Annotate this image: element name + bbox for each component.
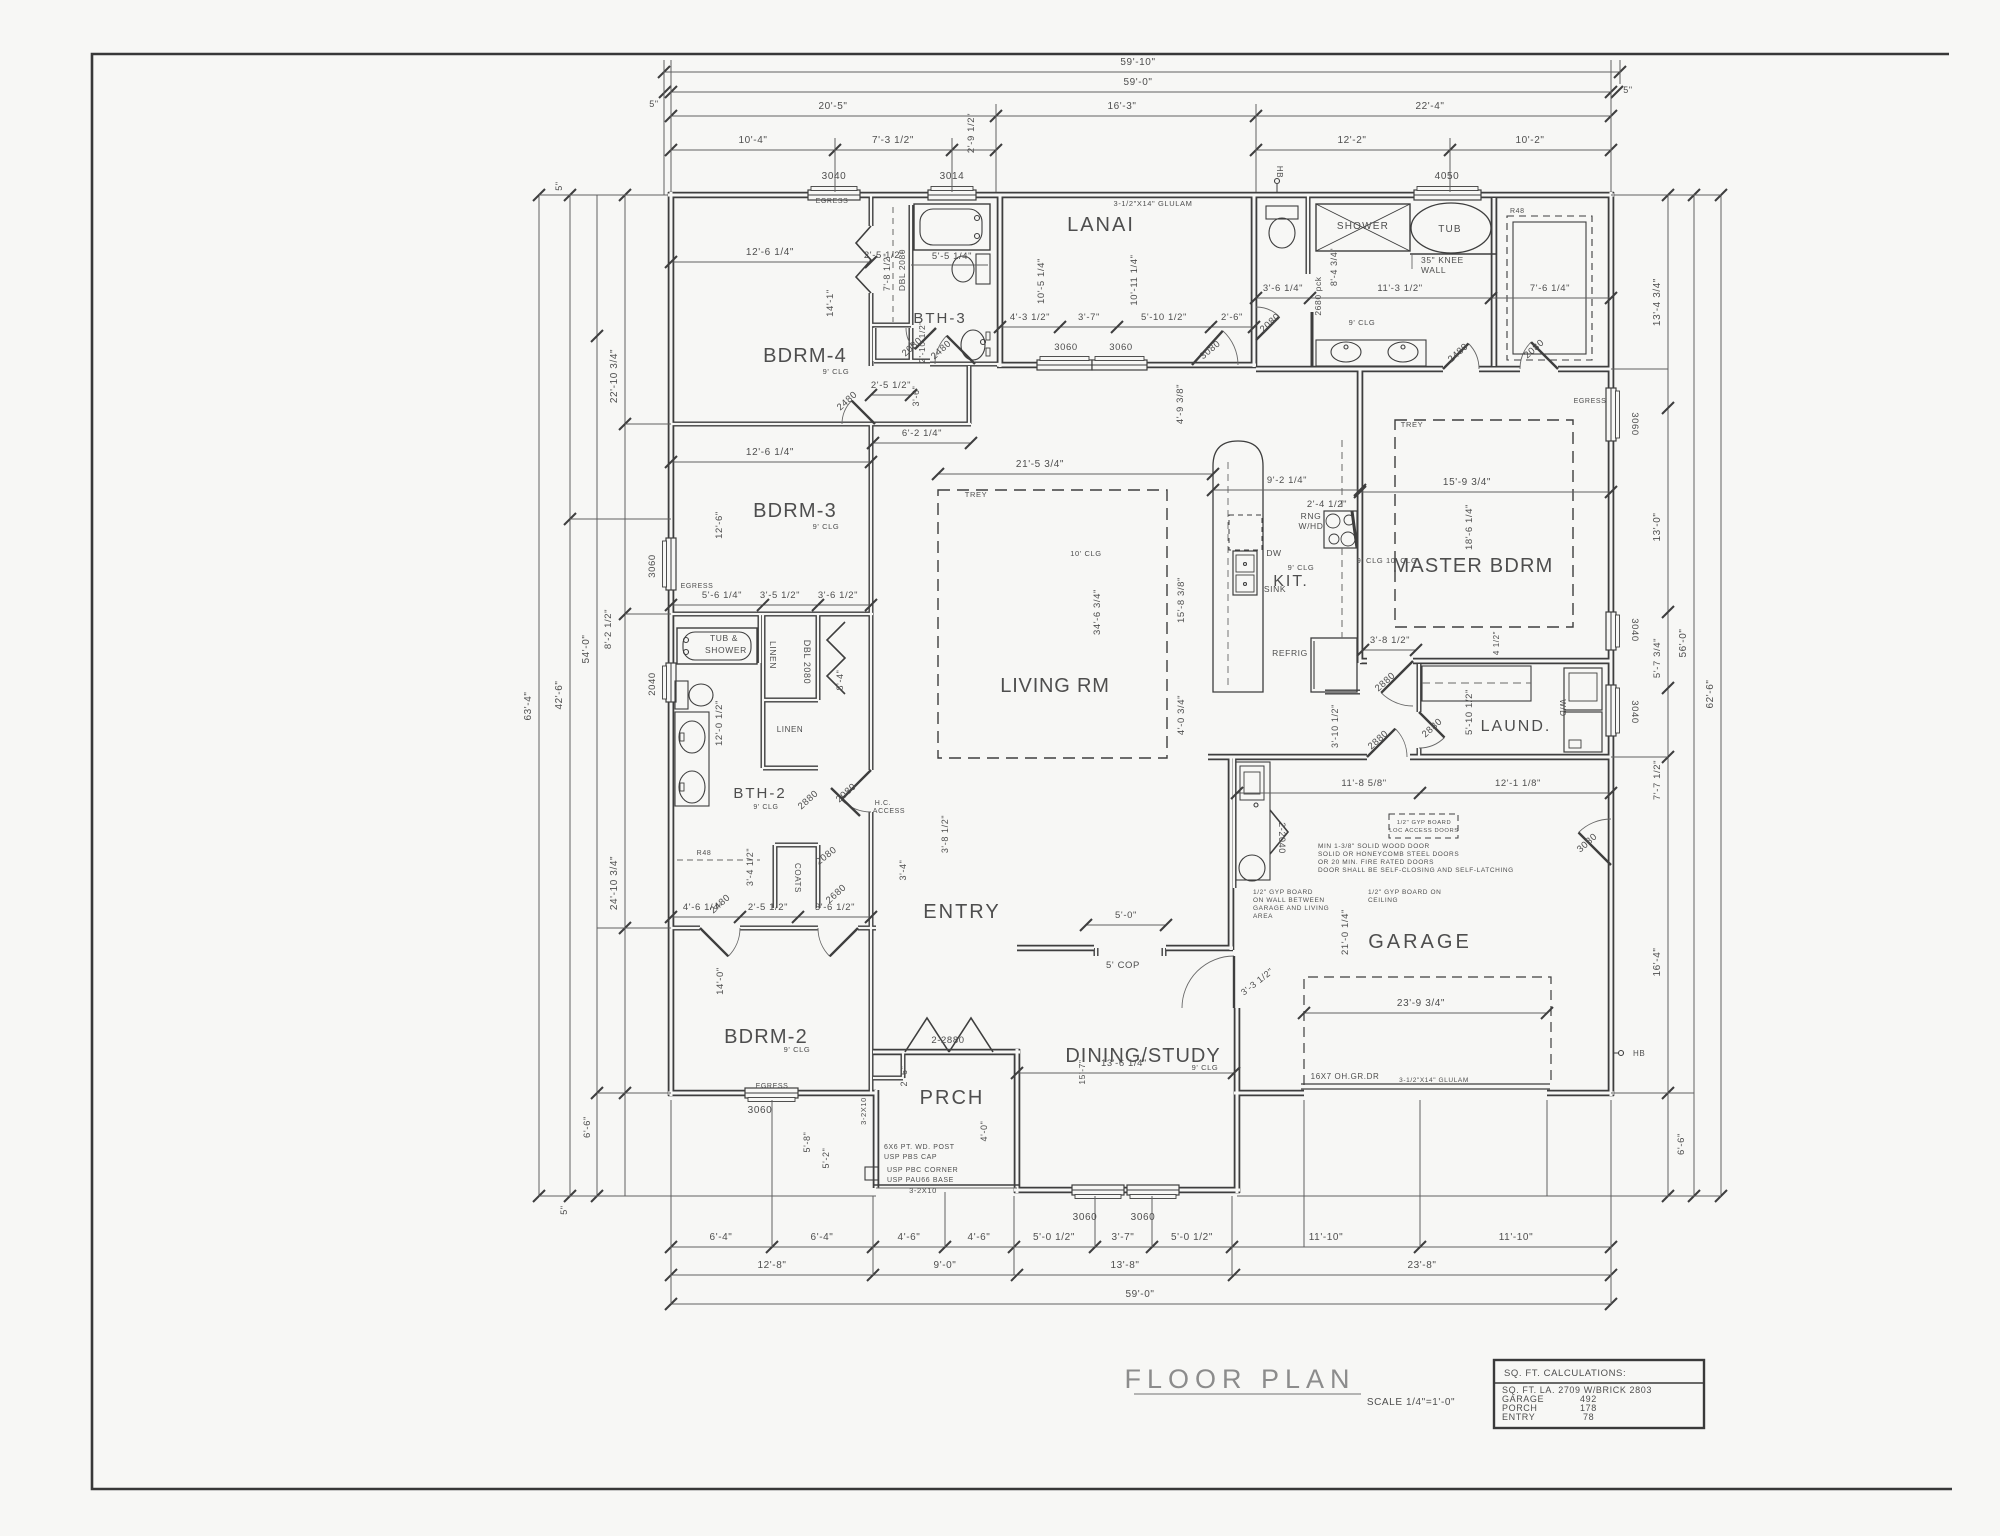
svg-text:USP PBC CORNER: USP PBC CORNER — [887, 1167, 958, 1174]
right window labels — [1574, 398, 1640, 724]
svg-text:COATS: COATS — [793, 863, 802, 893]
svg-text:5'-10 1/2": 5'-10 1/2" — [1141, 312, 1187, 323]
svg-text:5'-8": 5'-8" — [802, 1132, 812, 1153]
svg-text:LIVING RM: LIVING RM — [1000, 675, 1109, 697]
svg-text:3060: 3060 — [1629, 412, 1640, 436]
garage door opening 16x7 — [1301, 1084, 1550, 1089]
svg-text:9' CLG: 9' CLG — [784, 1045, 811, 1054]
svg-text:HB: HB — [1275, 166, 1284, 178]
room label lanai — [1067, 214, 1135, 236]
svg-text:12'-8": 12'-8" — [757, 1260, 786, 1271]
note glulam lanai — [1114, 199, 1193, 208]
svg-text:3-1/2"X14" GLULAM: 3-1/2"X14" GLULAM — [1114, 199, 1193, 208]
porch post — [865, 1167, 878, 1180]
svg-text:5'-0 1/2": 5'-0 1/2" — [1033, 1232, 1075, 1243]
svg-text:4'-0 3/4": 4'-0 3/4" — [1176, 695, 1187, 735]
dim bdrm3 12-6 — [665, 447, 877, 539]
svg-text:3'-8 1/2": 3'-8 1/2" — [1370, 635, 1410, 646]
bottom dimension row2 — [665, 1260, 1617, 1281]
svg-text:ACCESS: ACCESS — [873, 808, 905, 815]
svg-text:BDRM-3: BDRM-3 — [753, 500, 837, 522]
svg-text:34'-6 3/4": 34'-6 3/4" — [1092, 589, 1103, 635]
master closet shelves — [1507, 208, 1592, 360]
svg-text:MIN 1-3/8" SOLID WOOD DOOR: MIN 1-3/8" SOLID WOOD DOOR — [1318, 843, 1430, 850]
left window labels — [647, 554, 713, 696]
door 2080 hall to bth-2 — [834, 770, 871, 812]
insulation note R48 bth2 — [677, 850, 760, 860]
svg-text:11'-10": 11'-10" — [1309, 1232, 1344, 1243]
dim bth2 bottom row — [665, 902, 877, 923]
door 2480 bth-3 hall — [929, 336, 975, 364]
svg-text:USP PAU66 BASE: USP PAU66 BASE — [887, 1177, 954, 1184]
dishwasher — [1229, 515, 1282, 558]
dim garage verticals — [1239, 909, 1351, 997]
svg-text:9' CLG: 9' CLG — [753, 804, 778, 811]
svg-text:10' CLG: 10' CLG — [1070, 549, 1101, 558]
svg-text:2'-10 1/2": 2'-10 1/2" — [917, 321, 927, 363]
svg-text:6'-4": 6'-4" — [811, 1232, 834, 1243]
dim master 15-9 — [1354, 477, 1617, 550]
window 3060 laundry — [1606, 612, 1620, 650]
svg-text:13'-4 3/4": 13'-4 3/4" — [1652, 278, 1663, 326]
garage utility sink — [1236, 762, 1270, 881]
svg-text:14'-0": 14'-0" — [715, 967, 726, 995]
svg-text:BTH-3: BTH-3 — [913, 310, 966, 327]
svg-text:LOC ACCESS DOORS: LOC ACCESS DOORS — [1389, 828, 1459, 834]
svg-text:7'-6 1/4": 7'-6 1/4" — [1530, 283, 1570, 294]
svg-text:OR 20 MIN. FIRE RATED DOORS: OR 20 MIN. FIRE RATED DOORS — [1318, 859, 1434, 866]
master trey ceiling — [1357, 420, 1573, 627]
svg-text:LANAI: LANAI — [1067, 214, 1135, 236]
svg-text:DW: DW — [1266, 548, 1281, 558]
note porch post — [884, 1144, 958, 1195]
svg-text:3'-4": 3'-4" — [898, 860, 908, 881]
svg-text:12'-6": 12'-6" — [714, 511, 725, 539]
hose bibs — [1275, 166, 1646, 1058]
sink bth-3 — [961, 330, 990, 360]
svg-text:21'-5 3/4": 21'-5 3/4" — [1016, 459, 1064, 470]
svg-text:59'-0": 59'-0" — [1125, 1289, 1154, 1300]
svg-text:3040: 3040 — [1629, 618, 1640, 642]
svg-text:59'-0": 59'-0" — [1123, 77, 1152, 88]
door 2080 coats — [814, 844, 839, 867]
svg-text:SCALE 1/4"=1'-0": SCALE 1/4"=1'-0" — [1367, 1397, 1455, 1408]
svg-text:R48: R48 — [1510, 208, 1525, 215]
room label dining study — [1065, 1045, 1220, 1072]
svg-text:35" KNEE: 35" KNEE — [1421, 255, 1464, 265]
dim kitchen verticals — [1092, 577, 1340, 748]
window 3060 master egress — [1606, 388, 1620, 441]
svg-text:10'-5 1/4": 10'-5 1/4" — [1036, 258, 1047, 304]
dim kitchen 9-2 — [1207, 475, 1366, 510]
window 4050 master bath — [1414, 187, 1481, 201]
svg-text:3060: 3060 — [1109, 342, 1133, 353]
bottom dimension row3 — [665, 1289, 1617, 1310]
svg-text:9' CLG: 9' CLG — [1349, 318, 1376, 327]
top dimension line row4 — [665, 113, 1617, 156]
room label master bdrm — [1393, 555, 1554, 577]
door 3080 lanai — [1192, 331, 1238, 365]
right dimension col 56-0 — [1678, 189, 1700, 1202]
svg-text:W/HD: W/HD — [1298, 521, 1323, 531]
room label living rm — [1000, 675, 1109, 697]
bifold 2-2040 garage closet — [1270, 810, 1288, 854]
svg-text:7'-3 1/2": 7'-3 1/2" — [872, 135, 914, 146]
dim bdrm4 verticals — [825, 249, 927, 407]
svg-text:11'-10": 11'-10" — [1499, 1232, 1534, 1243]
svg-text:5": 5" — [554, 181, 564, 190]
laundry counter — [1422, 666, 1531, 701]
svg-text:7'-7 1/2": 7'-7 1/2" — [1652, 760, 1663, 800]
svg-text:DBL 2080: DBL 2080 — [802, 640, 812, 685]
top extension lines — [664, 60, 1620, 195]
room label bth-3 — [913, 310, 966, 327]
room label entry — [923, 901, 1000, 923]
svg-text:9' CLG: 9' CLG — [1192, 1063, 1219, 1072]
svg-text:2'-6": 2'-6" — [899, 1066, 909, 1087]
svg-text:5'-0 1/2": 5'-0 1/2" — [1171, 1232, 1213, 1243]
note gyp ceiling — [1368, 889, 1441, 904]
svg-text:12'-6 1/4": 12'-6 1/4" — [746, 247, 794, 258]
pocket door 2680 master bath — [1312, 276, 1323, 366]
svg-text:12'-0 1/2": 12'-0 1/2" — [714, 700, 725, 746]
svg-text:20'-5": 20'-5" — [818, 101, 847, 112]
svg-text:3040: 3040 — [822, 171, 847, 182]
svg-text:SHOWER: SHOWER — [1337, 221, 1389, 232]
svg-text:3'-6 1/2": 3'-6 1/2" — [818, 590, 858, 601]
svg-text:12'-2": 12'-2" — [1337, 135, 1366, 146]
svg-text:6'-6": 6'-6" — [1676, 1133, 1687, 1155]
note garage door — [1311, 1072, 1469, 1084]
window 3060 bdrm-3 left wall — [663, 538, 677, 590]
svg-text:LAUND.: LAUND. — [1481, 718, 1552, 735]
door 2080 master closet — [1520, 337, 1558, 369]
bottom dimension row1 — [665, 1232, 1617, 1253]
svg-text:2'-5 1/2": 2'-5 1/2" — [748, 902, 788, 913]
kitchen island — [1213, 441, 1263, 692]
svg-text:EGRESS: EGRESS — [681, 583, 714, 590]
svg-text:8'-2 1/2": 8'-2 1/2" — [603, 609, 614, 649]
svg-text:FLOOR PLAN: FLOOR PLAN — [1124, 1364, 1355, 1394]
svg-text:22'-4": 22'-4" — [1415, 101, 1444, 112]
dim entry 5-0 — [1080, 910, 1172, 971]
svg-text:10'-2": 10'-2" — [1515, 135, 1544, 146]
dim bth2 row — [665, 590, 877, 611]
wall cores — [668, 192, 1614, 1193]
svg-text:5'-7 3/4": 5'-7 3/4" — [1652, 638, 1663, 678]
dim dining 13-6 — [1011, 1058, 1240, 1085]
porch slab edge — [873, 1185, 1019, 1188]
svg-text:TREY: TREY — [1401, 420, 1423, 429]
svg-text:SOLID OR HONEYCOMB STEEL DOORS: SOLID OR HONEYCOMB STEEL DOORS — [1318, 851, 1459, 858]
svg-text:9'-2 1/4": 9'-2 1/4" — [1267, 475, 1307, 486]
svg-text:3014: 3014 — [940, 171, 965, 182]
svg-text:16X7 OH.GR.DR: 16X7 OH.GR.DR — [1311, 1072, 1380, 1081]
svg-text:22'-10 3/4": 22'-10 3/4" — [609, 349, 620, 403]
svg-text:4'-3 1/2": 4'-3 1/2" — [1010, 312, 1050, 323]
svg-text:PRCH: PRCH — [920, 1087, 985, 1109]
upper cabinets dash kitchen — [1341, 440, 1343, 638]
dim master 3-8 — [1357, 631, 1501, 656]
bifold doors dbl 2080 bth-2 linen — [827, 622, 845, 694]
left dimension col segments — [603, 189, 631, 1196]
dim bth2 verticals — [714, 640, 845, 746]
svg-text:4'-6": 4'-6" — [898, 1232, 921, 1243]
svg-text:4'-6 1/4": 4'-6 1/4" — [683, 902, 723, 913]
right dimension col 62-6 — [1705, 189, 1727, 1202]
room label bdrm-3 — [753, 500, 839, 531]
svg-text:1/2" GYP BOARD ON: 1/2" GYP BOARD ON — [1368, 889, 1441, 896]
svg-text:59'-10": 59'-10" — [1120, 57, 1155, 68]
dim hall verticals — [733, 785, 950, 886]
door 3-3.5 entry-garage — [1182, 956, 1234, 1008]
tub bth-3 — [914, 204, 990, 250]
svg-text:2'-9 1/2": 2'-9 1/2" — [966, 113, 977, 153]
svg-text:11'-3 1/2": 11'-3 1/2" — [1377, 283, 1422, 294]
dim hall 6-2 — [867, 428, 977, 449]
svg-text:11'-8 5/8": 11'-8 5/8" — [1341, 778, 1386, 789]
svg-text:5": 5" — [1623, 85, 1632, 95]
window 3060 bdrm-2 egress — [745, 1088, 798, 1102]
dim closet 2-5 — [865, 380, 917, 401]
svg-text:TUB: TUB — [1438, 224, 1462, 235]
svg-text:5'-10 1/2": 5'-10 1/2" — [1464, 689, 1475, 735]
top dimension line 59-10 — [658, 57, 1626, 84]
room label garage — [1368, 931, 1472, 953]
svg-text:6'-4": 6'-4" — [710, 1232, 733, 1243]
svg-text:EGRESS: EGRESS — [756, 1083, 789, 1090]
svg-text:5'-0": 5'-0" — [1115, 910, 1137, 921]
svg-text:3060: 3060 — [1073, 1212, 1098, 1223]
svg-text:3'-6 1/2": 3'-6 1/2" — [815, 902, 855, 913]
svg-text:ENTRY: ENTRY — [923, 901, 1000, 923]
svg-text:BDRM-4: BDRM-4 — [763, 345, 847, 367]
svg-text:62'-6": 62'-6" — [1705, 679, 1716, 708]
door 2880 laundry — [1419, 712, 1445, 748]
svg-text:5'-5 1/4": 5'-5 1/4" — [932, 251, 972, 262]
svg-text:KIT.: KIT. — [1273, 573, 1309, 590]
door 3080 garage right — [1575, 819, 1611, 865]
toilet bth-2 — [675, 681, 713, 709]
left extension lines — [539, 195, 876, 1196]
door 2880 hc access — [796, 788, 860, 816]
svg-text:9'-0": 9'-0" — [934, 1260, 957, 1271]
dim bth3 5-5 — [864, 250, 988, 265]
room label bdrm-2 — [724, 1026, 810, 1054]
french doors 2-2880 entry — [905, 1018, 993, 1052]
svg-text:14'-1": 14'-1" — [825, 289, 836, 317]
svg-text:4050: 4050 — [1435, 171, 1460, 182]
svg-text:DOOR SHALL BE SELF-CLOSING AND: DOOR SHALL BE SELF-CLOSING AND SELF-LATC… — [1318, 867, 1514, 874]
svg-text:13'-0": 13'-0" — [1652, 512, 1663, 541]
dim living 21-5 — [932, 459, 1219, 480]
svg-text:12'-6 1/4": 12'-6 1/4" — [746, 447, 794, 458]
svg-text:10'-11 1/4": 10'-11 1/4" — [1129, 254, 1140, 305]
svg-text:RNG: RNG — [1301, 511, 1322, 521]
top dimension line row3 — [665, 101, 1617, 122]
svg-text:4'-9 3/8": 4'-9 3/8" — [1175, 384, 1186, 424]
note gyp wall — [1253, 889, 1329, 920]
living room trey ceiling — [938, 490, 1167, 758]
svg-text:TREY: TREY — [965, 490, 987, 499]
svg-text:8'-4": 8'-4" — [835, 670, 845, 691]
svg-text:1/2" GYP BOARD: 1/2" GYP BOARD — [1397, 820, 1452, 826]
svg-text:2'-5 1/2": 2'-5 1/2" — [871, 380, 911, 391]
tub and shower bth-2 — [677, 628, 757, 664]
svg-text:16'-4": 16'-4" — [1652, 947, 1663, 976]
svg-text:2-2040: 2-2040 — [1277, 822, 1287, 854]
left dimension col 63-4 — [523, 189, 545, 1202]
right dimension col inner — [1652, 189, 1687, 1202]
svg-text:3'-5 1/2": 3'-5 1/2" — [760, 590, 800, 601]
svg-text:78: 78 — [1583, 1412, 1594, 1422]
room label kit — [1273, 563, 1314, 590]
svg-text:R48: R48 — [697, 850, 712, 857]
door 2880 hall-garage — [1366, 728, 1407, 757]
refrigerator — [1272, 638, 1357, 692]
window 3014 bth-3 — [928, 187, 976, 201]
svg-text:3040: 3040 — [1629, 700, 1640, 724]
svg-text:REFRIG: REFRIG — [1272, 648, 1308, 658]
svg-text:24'-10 3/4": 24'-10 3/4" — [609, 856, 620, 910]
range — [1298, 511, 1357, 548]
svg-text:3'-7": 3'-7" — [1078, 312, 1100, 323]
vanity bth-2 — [675, 712, 709, 806]
svg-text:BTH-2: BTH-2 — [733, 785, 786, 802]
svg-text:21'-0 1/4": 21'-0 1/4" — [1340, 909, 1351, 955]
title floor plan — [1124, 1364, 1455, 1408]
svg-text:2040: 2040 — [647, 672, 658, 696]
svg-text:10'-4": 10'-4" — [738, 135, 767, 146]
dim master bath row — [1250, 248, 1617, 327]
svg-text:3'-8 1/2": 3'-8 1/2" — [940, 815, 950, 853]
window 2040 bth-2 left wall — [663, 663, 677, 702]
svg-text:3'-6 1/4": 3'-6 1/4" — [1263, 283, 1303, 294]
kitchen sink — [1233, 551, 1286, 595]
svg-text:5'-2": 5'-2" — [821, 1148, 831, 1169]
door 2480 master bath — [1443, 341, 1479, 369]
svg-text:2-2880: 2-2880 — [931, 1035, 964, 1046]
window 3040 laundry — [1606, 685, 1620, 736]
right extension lines — [1237, 195, 1721, 1196]
svg-text:6'-6": 6'-6" — [582, 1116, 593, 1138]
door 2880 master bdrm — [1373, 661, 1413, 706]
dim garage door 23-9 — [1298, 998, 1553, 1019]
dim garage row — [1231, 778, 1617, 799]
door 2080 bth-3 — [900, 328, 936, 359]
note fire door — [1318, 843, 1514, 874]
svg-text:3060: 3060 — [1054, 342, 1078, 353]
svg-text:2680 pck: 2680 pck — [1313, 276, 1323, 315]
svg-text:12'-1 1/8": 12'-1 1/8" — [1495, 778, 1541, 789]
dim laundry — [1464, 689, 1475, 735]
svg-text:5' COP: 5' COP — [1106, 960, 1140, 971]
svg-text:4'-0": 4'-0" — [979, 1121, 989, 1142]
window 3040 bdrm-4 — [808, 187, 860, 201]
svg-text:5'-6 1/4": 5'-6 1/4" — [702, 590, 742, 601]
master vanity — [1316, 340, 1426, 366]
svg-text:3060: 3060 — [748, 1105, 773, 1116]
door 2080 master bath hall — [1256, 307, 1283, 340]
svg-text:3-2X10: 3-2X10 — [859, 1097, 868, 1125]
svg-text:6'-2 1/4": 6'-2 1/4" — [902, 428, 942, 439]
svg-text:HB: HB — [1633, 1049, 1645, 1058]
svg-text:5": 5" — [559, 1205, 569, 1214]
svg-text:42'-6": 42'-6" — [554, 680, 565, 709]
svg-text:9' CLG: 9' CLG — [823, 367, 850, 376]
room label prch — [920, 1087, 985, 1109]
door 2480 bdrm-2 left — [700, 892, 740, 956]
dim bdrm4 12-6 — [665, 247, 877, 268]
svg-text:3-1/2"X14" GLULAM: 3-1/2"X14" GLULAM — [1399, 1077, 1469, 1084]
interior walls — [671, 195, 1419, 1093]
svg-text:GARAGE AND LIVING: GARAGE AND LIVING — [1253, 905, 1329, 912]
master toilet — [1266, 206, 1298, 248]
garage ceiling gyp dashed — [1304, 977, 1551, 1085]
svg-text:USP PBS CAP: USP PBS CAP — [884, 1154, 937, 1161]
svg-text:W/D: W/D — [1558, 699, 1567, 716]
svg-text:23'-9 3/4": 23'-9 3/4" — [1397, 998, 1445, 1009]
svg-text:9' CLG: 9' CLG — [1288, 563, 1315, 572]
svg-text:EGRESS: EGRESS — [816, 198, 849, 205]
svg-text:15'-8 3/8": 15'-8 3/8" — [1176, 577, 1187, 623]
svg-text:16'-3": 16'-3" — [1107, 101, 1136, 112]
room label laund — [1481, 718, 1552, 735]
svg-text:63'-4": 63'-4" — [523, 691, 534, 720]
left dimension col 42-6 — [554, 181, 576, 1214]
svg-text:LINEN: LINEN — [768, 641, 778, 669]
svg-text:3060: 3060 — [1131, 1212, 1156, 1223]
svg-text:15'-9 3/4": 15'-9 3/4" — [1443, 477, 1491, 488]
svg-text:3'-10 1/2": 3'-10 1/2" — [1330, 704, 1340, 748]
window labels top — [816, 171, 1460, 205]
window labels lanai — [1054, 342, 1133, 353]
svg-text:SHOWER: SHOWER — [705, 645, 747, 655]
bottom extension lines — [671, 1100, 1611, 1304]
svg-text:2'-5 1/2": 2'-5 1/2" — [864, 250, 904, 261]
svg-text:23'-8": 23'-8" — [1407, 1260, 1436, 1271]
svg-text:H.C.: H.C. — [875, 800, 891, 807]
svg-text:AREA: AREA — [1253, 913, 1273, 920]
svg-text:MASTER BDRM: MASTER BDRM — [1393, 555, 1554, 577]
dim lanai verticals — [1036, 254, 1186, 424]
left dimension col 54-0 — [581, 195, 603, 1202]
svg-text:4'-6": 4'-6" — [968, 1232, 991, 1243]
svg-text:GARAGE: GARAGE — [1368, 931, 1472, 953]
svg-text:3060: 3060 — [647, 554, 658, 578]
svg-text:2'-4 1/2": 2'-4 1/2" — [1307, 499, 1347, 510]
svg-text:54'-0": 54'-0" — [581, 634, 592, 663]
svg-text:9' CLG: 9' CLG — [813, 522, 840, 531]
svg-text:EGRESS: EGRESS — [1574, 398, 1607, 405]
svg-text:TUB &: TUB & — [710, 633, 738, 643]
attic access dashed — [1389, 814, 1459, 838]
master shower — [1316, 204, 1410, 251]
linen closet dash bth-3 — [892, 207, 894, 322]
exterior walls — [668, 192, 1614, 1193]
knee wall — [1410, 254, 1497, 275]
svg-text:2'-6": 2'-6" — [1221, 312, 1243, 323]
svg-text:SQ. FT. CALCULATIONS:: SQ. FT. CALCULATIONS: — [1504, 1368, 1626, 1379]
washer dryer — [1558, 668, 1602, 752]
bifold closet doors bdrm-4 — [856, 226, 871, 293]
svg-text:3'-7": 3'-7" — [1112, 1232, 1135, 1243]
svg-text:1/2" GYP BOARD: 1/2" GYP BOARD — [1253, 889, 1313, 896]
svg-text:4 1/2": 4 1/2" — [1492, 631, 1501, 655]
svg-text:3-2X10: 3-2X10 — [909, 1186, 937, 1195]
svg-text:5": 5" — [649, 99, 658, 109]
top dimension line 59-0 — [649, 77, 1632, 109]
